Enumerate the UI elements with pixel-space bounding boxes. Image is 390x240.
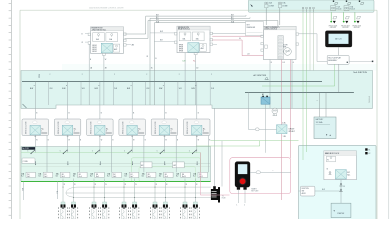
- fuse F1 top band: [265, 2, 275, 8]
- svg-text:B: B: [209, 140, 210, 142]
- main body ECU U1: [324, 151, 357, 180]
- wire injector 10 feed: [194, 179, 196, 203]
- ground G2: [341, 12, 349, 29]
- svg-text:INJ: INJ: [44, 174, 46, 176]
- top band pin header: [302, 7, 314, 12]
- noise capacitor symbol: [272, 108, 278, 114]
- wire band2 col a2: [67, 147, 69, 153]
- svg-text:E1: E1: [369, 150, 371, 152]
- ruler ticks: [9, 4, 12, 216]
- svg-text:INJ: INJ: [130, 174, 132, 176]
- wire relay K6 pin1 down: [196, 136, 198, 147]
- fusible link block 2: [175, 26, 213, 54]
- svg-text:No.4: No.4: [79, 176, 82, 178]
- contact symbol c1: [340, 183, 342, 185]
- injector INJ6: [130, 202, 139, 219]
- injector INJ2: [69, 202, 78, 219]
- wire green drop 1: [302, 12, 304, 160]
- wire relay K3 pin2 down: [111, 136, 113, 147]
- wire bundle4 drop: [153, 23, 155, 105]
- wire relay K5 pin1 down: [164, 136, 166, 147]
- junction box band2: [21, 147, 211, 182]
- wire bus stub 3: [112, 82, 114, 105]
- fuse F4 top band: [344, 5, 355, 10]
- wire relay K6 pin2 down: [208, 136, 210, 147]
- svg-text:No.2: No.2: [44, 176, 47, 178]
- band2 sub box B: [173, 162, 185, 168]
- main band bus line: [22, 81, 322, 83]
- svg-text:B-W: B-W: [30, 88, 34, 90]
- svg-text:INJ: INJ: [79, 174, 81, 176]
- wire injector 6 feed: [134, 179, 136, 203]
- wire box1 left stubs: [85, 33, 88, 35]
- body ECU panel: [299, 145, 377, 223]
- band2 gray rail: [21, 163, 211, 165]
- svg-text:RLY: RLY: [347, 172, 350, 174]
- immobilizer foot left: [237, 187, 240, 190]
- wire relay K4 pin2 down: [143, 136, 145, 147]
- svg-text:B-2: B-2: [125, 176, 127, 178]
- wire bus stub 6: [209, 82, 211, 105]
- svg-text:INJ: INJ: [113, 174, 115, 176]
- svg-text:No.2 J/B: No.2 J/B: [22, 148, 29, 150]
- harness line 1: [66, 187, 211, 193]
- main band bus line 2: [245, 92, 354, 94]
- panel pin 2: [365, 152, 367, 154]
- svg-text:DOME: DOME: [269, 5, 275, 7]
- wire U1 down: [340, 180, 342, 204]
- main junction band: [21, 71, 373, 109]
- wire bundle 3: [148, 20, 278, 22]
- wire green h2: [196, 145, 260, 147]
- svg-text:R-L: R-L: [193, 61, 196, 63]
- wire band to connector: [214, 108, 216, 186]
- band2 green rail: [21, 152, 201, 154]
- wire bus stub 5: [177, 82, 179, 105]
- contact mark 5: [164, 161, 166, 164]
- svg-text:OPN RLY: OPN RLY: [288, 131, 294, 133]
- wire relay K5 pin2 down: [175, 136, 177, 147]
- svg-text:INJ: INJ: [27, 174, 29, 176]
- harness line 2: [66, 192, 211, 194]
- relay K1: [22, 119, 49, 136]
- wire gray drop 1: [309, 12, 311, 70]
- svg-text:2004 MODEL ENGINE CONTROL 1G: 2004 MODEL ENGINE CONTROL 1GR-FE: [89, 8, 124, 10]
- wire band2 col a1: [34, 147, 36, 153]
- svg-text:B: B: [198, 113, 199, 115]
- injector INJ9: [181, 202, 190, 219]
- relay K4: [119, 119, 145, 136]
- display label box: [327, 55, 349, 64]
- wire relay K1 pin2 down: [46, 136, 48, 147]
- band2 sub box A: [140, 162, 152, 168]
- wire red transponder: [212, 39, 242, 41]
- fuse box f11 band2: [193, 172, 207, 178]
- svg-text:2: 2: [82, 74, 83, 76]
- immobilizer body: [235, 162, 250, 188]
- wire bundle1 to box1 pin: [145, 16, 147, 34]
- wire bundle3 to box1 pin: [147, 21, 149, 39]
- connector ellipse E1: [255, 128, 259, 131]
- svg-text:5: 5: [124, 151, 125, 153]
- battery B1: [314, 117, 336, 139]
- svg-text:No.10: No.10: [182, 176, 186, 178]
- svg-text:B-2: B-2: [39, 176, 41, 178]
- wire injector 8 feed: [164, 179, 166, 203]
- svg-text:B: B: [101, 113, 102, 115]
- wire bus stub 4: [145, 82, 147, 105]
- svg-text:B: B: [133, 113, 134, 115]
- wire display label down: [338, 64, 340, 93]
- svg-text:No.1: No.1: [347, 175, 350, 177]
- switch contact S1: [27, 150, 35, 155]
- svg-text:DOME: DOME: [282, 5, 288, 7]
- svg-text:B: B: [145, 140, 146, 142]
- svg-text:B-W: B-W: [62, 88, 66, 90]
- wire battery b: [325, 93, 327, 117]
- wire bus stub 2: [80, 82, 82, 105]
- pre-band strip: [62, 64, 377, 71]
- wire green v: [259, 141, 261, 146]
- wire bus stub 1: [48, 82, 50, 105]
- svg-text:B: B: [155, 58, 156, 60]
- contact mark 6: [196, 161, 198, 164]
- wire injector 3 feed: [93, 179, 95, 203]
- wire band2 col a6: [196, 147, 198, 153]
- svg-text:B: B: [177, 140, 178, 142]
- wire green drop 2: [306, 12, 308, 152]
- fuse box f3 band2: [56, 172, 70, 178]
- svg-text:B-W: B-W: [127, 88, 131, 90]
- injector INJ10: [191, 202, 200, 219]
- starter box U3: [331, 203, 351, 217]
- svg-text:INJ: INJ: [165, 174, 167, 176]
- svg-text:B: B: [80, 140, 81, 142]
- immobilizer screen: [238, 164, 247, 174]
- display unit screen: [329, 34, 349, 44]
- svg-text:B: B: [48, 140, 49, 142]
- fuse box f1 band2: [21, 172, 35, 178]
- svg-text:2: 2: [114, 74, 115, 76]
- svg-text:B: B: [82, 33, 83, 35]
- wire box2 bottom drop: [195, 55, 197, 105]
- wire bundle2 drop: [149, 18, 151, 105]
- switch contact S3: [92, 150, 100, 155]
- wire band2 col b2: [78, 147, 80, 173]
- fuse box f8 band2: [142, 172, 156, 178]
- wire left drop: [57, 181, 59, 199]
- svg-text:W-B: W-B: [21, 188, 23, 191]
- wire injector 2 feed: [73, 179, 75, 203]
- wire band2 col a3: [99, 147, 101, 153]
- wire bus to relay 2: [62, 82, 69, 119]
- fuse box f9 band2: [159, 172, 173, 178]
- svg-text:GROUND: GROUND: [342, 27, 348, 29]
- wire pink band2 drop: [199, 153, 201, 196]
- wire relay K3 pin1 down: [99, 136, 101, 147]
- svg-text:AV C/U: AV C/U: [335, 38, 342, 41]
- relay K7 circuit opening: [277, 121, 295, 138]
- relay K2: [54, 119, 81, 136]
- svg-text:W-L: W-L: [156, 19, 159, 21]
- panel pin 1: [365, 148, 367, 150]
- switch contact S2: [60, 150, 68, 155]
- band2 label: [22, 147, 36, 150]
- wire fuse F2 down: [279, 8, 281, 25]
- fuse F3 top band: [331, 5, 342, 10]
- wire fob foot right: [244, 190, 246, 203]
- top band flag: [250, 4, 253, 7]
- ground G1: [329, 12, 337, 29]
- contact mark 1: [35, 161, 37, 164]
- fuse box f6 band2: [107, 172, 121, 178]
- wire green display branch: [334, 64, 336, 86]
- ground G3: [353, 12, 361, 29]
- fuse box f7 band2: [125, 172, 139, 178]
- wire bus to relay 6: [192, 82, 199, 119]
- injector INJ3: [90, 202, 99, 219]
- svg-text:B-2: B-2: [73, 176, 75, 178]
- svg-text:CIRCUIT: CIRCUIT: [288, 129, 294, 131]
- svg-text:+: +: [329, 133, 331, 137]
- relay K3: [87, 119, 114, 136]
- wire battery a: [319, 93, 321, 117]
- svg-text:B-2: B-2: [176, 176, 178, 178]
- svg-text:No.5: No.5: [96, 176, 99, 178]
- wire box1 bottom drop: [103, 55, 105, 105]
- wire band2 col b3: [111, 147, 113, 173]
- svg-text:B-Y: B-Y: [231, 17, 234, 19]
- svg-text:+: +: [333, 208, 335, 212]
- wire gray drop 2: [313, 12, 315, 70]
- harness line 3: [66, 193, 211, 197]
- page edge line: [388, 0, 390, 219]
- switch contact S5: [157, 150, 165, 155]
- switch contact S6: [189, 150, 197, 155]
- wire box1 right stub3: [126, 44, 131, 46]
- fuse box f5 band2: [90, 172, 104, 178]
- svg-text:+: +: [273, 170, 274, 172]
- svg-text:B-2: B-2: [90, 176, 92, 178]
- wire relay K4 pin1 down: [131, 136, 133, 147]
- fuse F2 top band: [278, 2, 288, 8]
- svg-text:+: +: [317, 100, 318, 102]
- svg-text:No.6: No.6: [113, 176, 116, 178]
- wire fuse F1 down: [265, 8, 267, 25]
- svg-text:CONN: CONN: [23, 161, 29, 163]
- transponder key ECU: [261, 26, 299, 59]
- injector INJ1: [59, 202, 68, 219]
- svg-text:3: 3: [106, 131, 107, 133]
- svg-text:ECU-B: ECU-B: [350, 9, 355, 11]
- svg-text:INJ: INJ: [182, 174, 184, 176]
- svg-text:5: 5: [171, 131, 172, 133]
- svg-text:INJ: INJ: [148, 174, 150, 176]
- wire E2 right: [261, 171, 291, 173]
- wire band2 col b6: [208, 147, 210, 173]
- svg-text:No.8: No.8: [148, 176, 151, 178]
- injector INJ7: [151, 202, 160, 219]
- wire fob to E2: [250, 171, 256, 173]
- band corner tick: [23, 104, 27, 108]
- wire fob foot left: [237, 190, 239, 203]
- wire left drop 2: [22, 181, 24, 200]
- display unit bezel: [325, 31, 352, 47]
- relay K5: [151, 119, 178, 136]
- band2 gray rail 2: [21, 165, 211, 167]
- wire band2 col b4: [143, 147, 145, 173]
- wire red to box3: [212, 35, 261, 37]
- svg-text:B: B: [90, 59, 91, 61]
- wire band2 col b1: [46, 147, 48, 173]
- wire box3 drop 3: [291, 60, 293, 109]
- svg-text:B-W: B-W: [159, 88, 163, 90]
- wire injector 1 feed: [62, 179, 64, 203]
- wire gray mid drop: [265, 104, 267, 153]
- wire injector 5 feed: [123, 179, 125, 203]
- wire box3 to display box: [299, 33, 317, 35]
- top band pin symbol 2: [346, 0, 351, 4]
- svg-text:W-B: W-B: [231, 21, 234, 23]
- svg-text:MAIN BODY ECU: MAIN BODY ECU: [325, 152, 340, 155]
- wire band2 col b5: [175, 147, 177, 173]
- relay K6: [184, 119, 211, 136]
- svg-text:B: B: [271, 62, 272, 64]
- svg-text:KEY UNIT: KEY UNIT: [251, 191, 258, 193]
- wire panel left entry: [299, 190, 301, 192]
- frame left: [19, 10, 21, 219]
- svg-text:No.1: No.1: [27, 176, 30, 178]
- svg-text:B-W: B-W: [192, 88, 196, 90]
- svg-text:No.6 JUNCTION: No.6 JUNCTION: [353, 72, 367, 74]
- fuse box f10 band2: [176, 172, 190, 178]
- immobilizer foot right: [243, 187, 246, 190]
- wire injector 7 feed: [154, 179, 156, 203]
- svg-text:ENGINE ROOM: ENGINE ROOM: [178, 27, 190, 29]
- contact symbol c2: [340, 189, 342, 191]
- svg-text:B: B: [165, 113, 166, 115]
- svg-text:B-Y: B-Y: [156, 17, 159, 19]
- wire band to capacitor: [274, 107, 276, 109]
- svg-text:1: 1: [41, 131, 42, 133]
- svg-text:B-2: B-2: [142, 176, 144, 178]
- display aux pin: [349, 60, 372, 62]
- svg-text:4: 4: [138, 131, 139, 133]
- svg-text:REMINDER: REMINDER: [247, 27, 256, 29]
- ruler line: [10, 0, 12, 219]
- svg-text:W-B: W-B: [156, 21, 159, 23]
- top band pin symbol 3: [359, 0, 364, 4]
- wire box2 left stubs: [150, 32, 175, 34]
- wire pink loop: [230, 158, 291, 194]
- svg-text:ECU-B: ECU-B: [336, 9, 341, 11]
- noise filter box: [246, 22, 264, 36]
- svg-text:B-2: B-2: [56, 176, 58, 178]
- frame top: [20, 9, 377, 11]
- wire green h1: [211, 140, 299, 142]
- svg-text:No.3: No.3: [62, 176, 65, 178]
- junction block top band: [248, 0, 374, 12]
- top band pin symbol 1: [333, 0, 338, 4]
- wire U2 to U1: [315, 190, 341, 192]
- svg-text:B-2: B-2: [107, 176, 109, 178]
- wire box2 to box3 gray: [212, 32, 264, 34]
- svg-text:JUNCTION BOX No.1: JUNCTION BOX No.1: [92, 29, 107, 31]
- wire box3 drop 2: [281, 60, 283, 201]
- svg-text:GROUND: GROUND: [330, 27, 336, 29]
- svg-text:5: 5: [157, 151, 158, 153]
- band2 green loop outer: [132, 158, 201, 182]
- immobilizer button: [239, 178, 246, 185]
- svg-text:2B: 2B: [105, 67, 107, 69]
- svg-text:W-L: W-L: [231, 19, 234, 21]
- wire box2 right stub3: [213, 43, 217, 45]
- switch contact S4: [124, 150, 132, 155]
- wire injector 4 feed: [104, 179, 106, 203]
- injector INJ4: [100, 202, 109, 219]
- wire bundle 2: [150, 17, 250, 19]
- wire band2 col a5: [164, 147, 166, 153]
- wire bus to relay 1: [30, 82, 37, 119]
- svg-text:FRONT SIDE: FRONT SIDE: [353, 25, 361, 27]
- svg-text:No.7: No.7: [130, 176, 133, 178]
- svg-text:E2: E2: [369, 153, 371, 155]
- svg-text:MULTI-DISPLAY: MULTI-DISPLAY: [328, 56, 341, 59]
- svg-text:No.11: No.11: [199, 176, 203, 178]
- svg-text:2: 2: [74, 131, 75, 133]
- wire bundle 1: [146, 15, 246, 17]
- wire relay K2 pin1 down: [67, 136, 69, 147]
- wire bundle 4: [154, 22, 245, 24]
- svg-text:B: B: [112, 140, 113, 142]
- contact mark 4: [132, 161, 134, 164]
- svg-text:No.9: No.9: [165, 176, 168, 178]
- wire display down: [338, 47, 340, 55]
- blue connector block: [261, 97, 270, 104]
- svg-text:ASSEMBLY: ASSEMBLY: [328, 59, 338, 62]
- ignition switch box U2: [300, 186, 315, 196]
- svg-text:IGNITION: IGNITION: [302, 188, 310, 190]
- wire box1 left pin drop: [88, 44, 90, 105]
- svg-text:INJ: INJ: [96, 174, 98, 176]
- svg-text:B-2: B-2: [159, 176, 161, 178]
- frame right: [376, 10, 378, 219]
- contact mark 3: [99, 161, 101, 164]
- svg-text:6: 6: [203, 131, 204, 133]
- svg-text:FRONT SIDE: FRONT SIDE: [341, 25, 349, 27]
- wire hanging drop: [184, 53, 186, 105]
- svg-text:B-W: B-W: [95, 88, 99, 90]
- connector ellipse E2: [256, 171, 260, 174]
- wire injector 9 feed: [184, 179, 186, 203]
- injector INJ8: [161, 202, 170, 219]
- svg-text:INJ: INJ: [62, 174, 64, 176]
- svg-text:SYSTEM: SYSTEM: [368, 96, 370, 104]
- svg-text:B-2: B-2: [21, 176, 23, 178]
- band2 green bottom: [21, 181, 211, 183]
- fuse box f2 band2: [39, 172, 53, 178]
- svg-text:ENGINE ROOM: ENGINE ROOM: [92, 28, 104, 30]
- wire bus to relay 4: [127, 82, 134, 119]
- svg-text:FRONT SIDE: FRONT SIDE: [329, 25, 337, 27]
- band2 sub label: [22, 158, 35, 164]
- svg-text:W-B: W-B: [38, 74, 40, 79]
- svg-text:B-2: B-2: [193, 176, 195, 178]
- wire box3 drop 1: [269, 60, 271, 109]
- wire relay K2 pin2 down: [78, 136, 80, 147]
- wire bus to relay 5: [159, 82, 166, 119]
- band2 green loop inner: [139, 167, 196, 182]
